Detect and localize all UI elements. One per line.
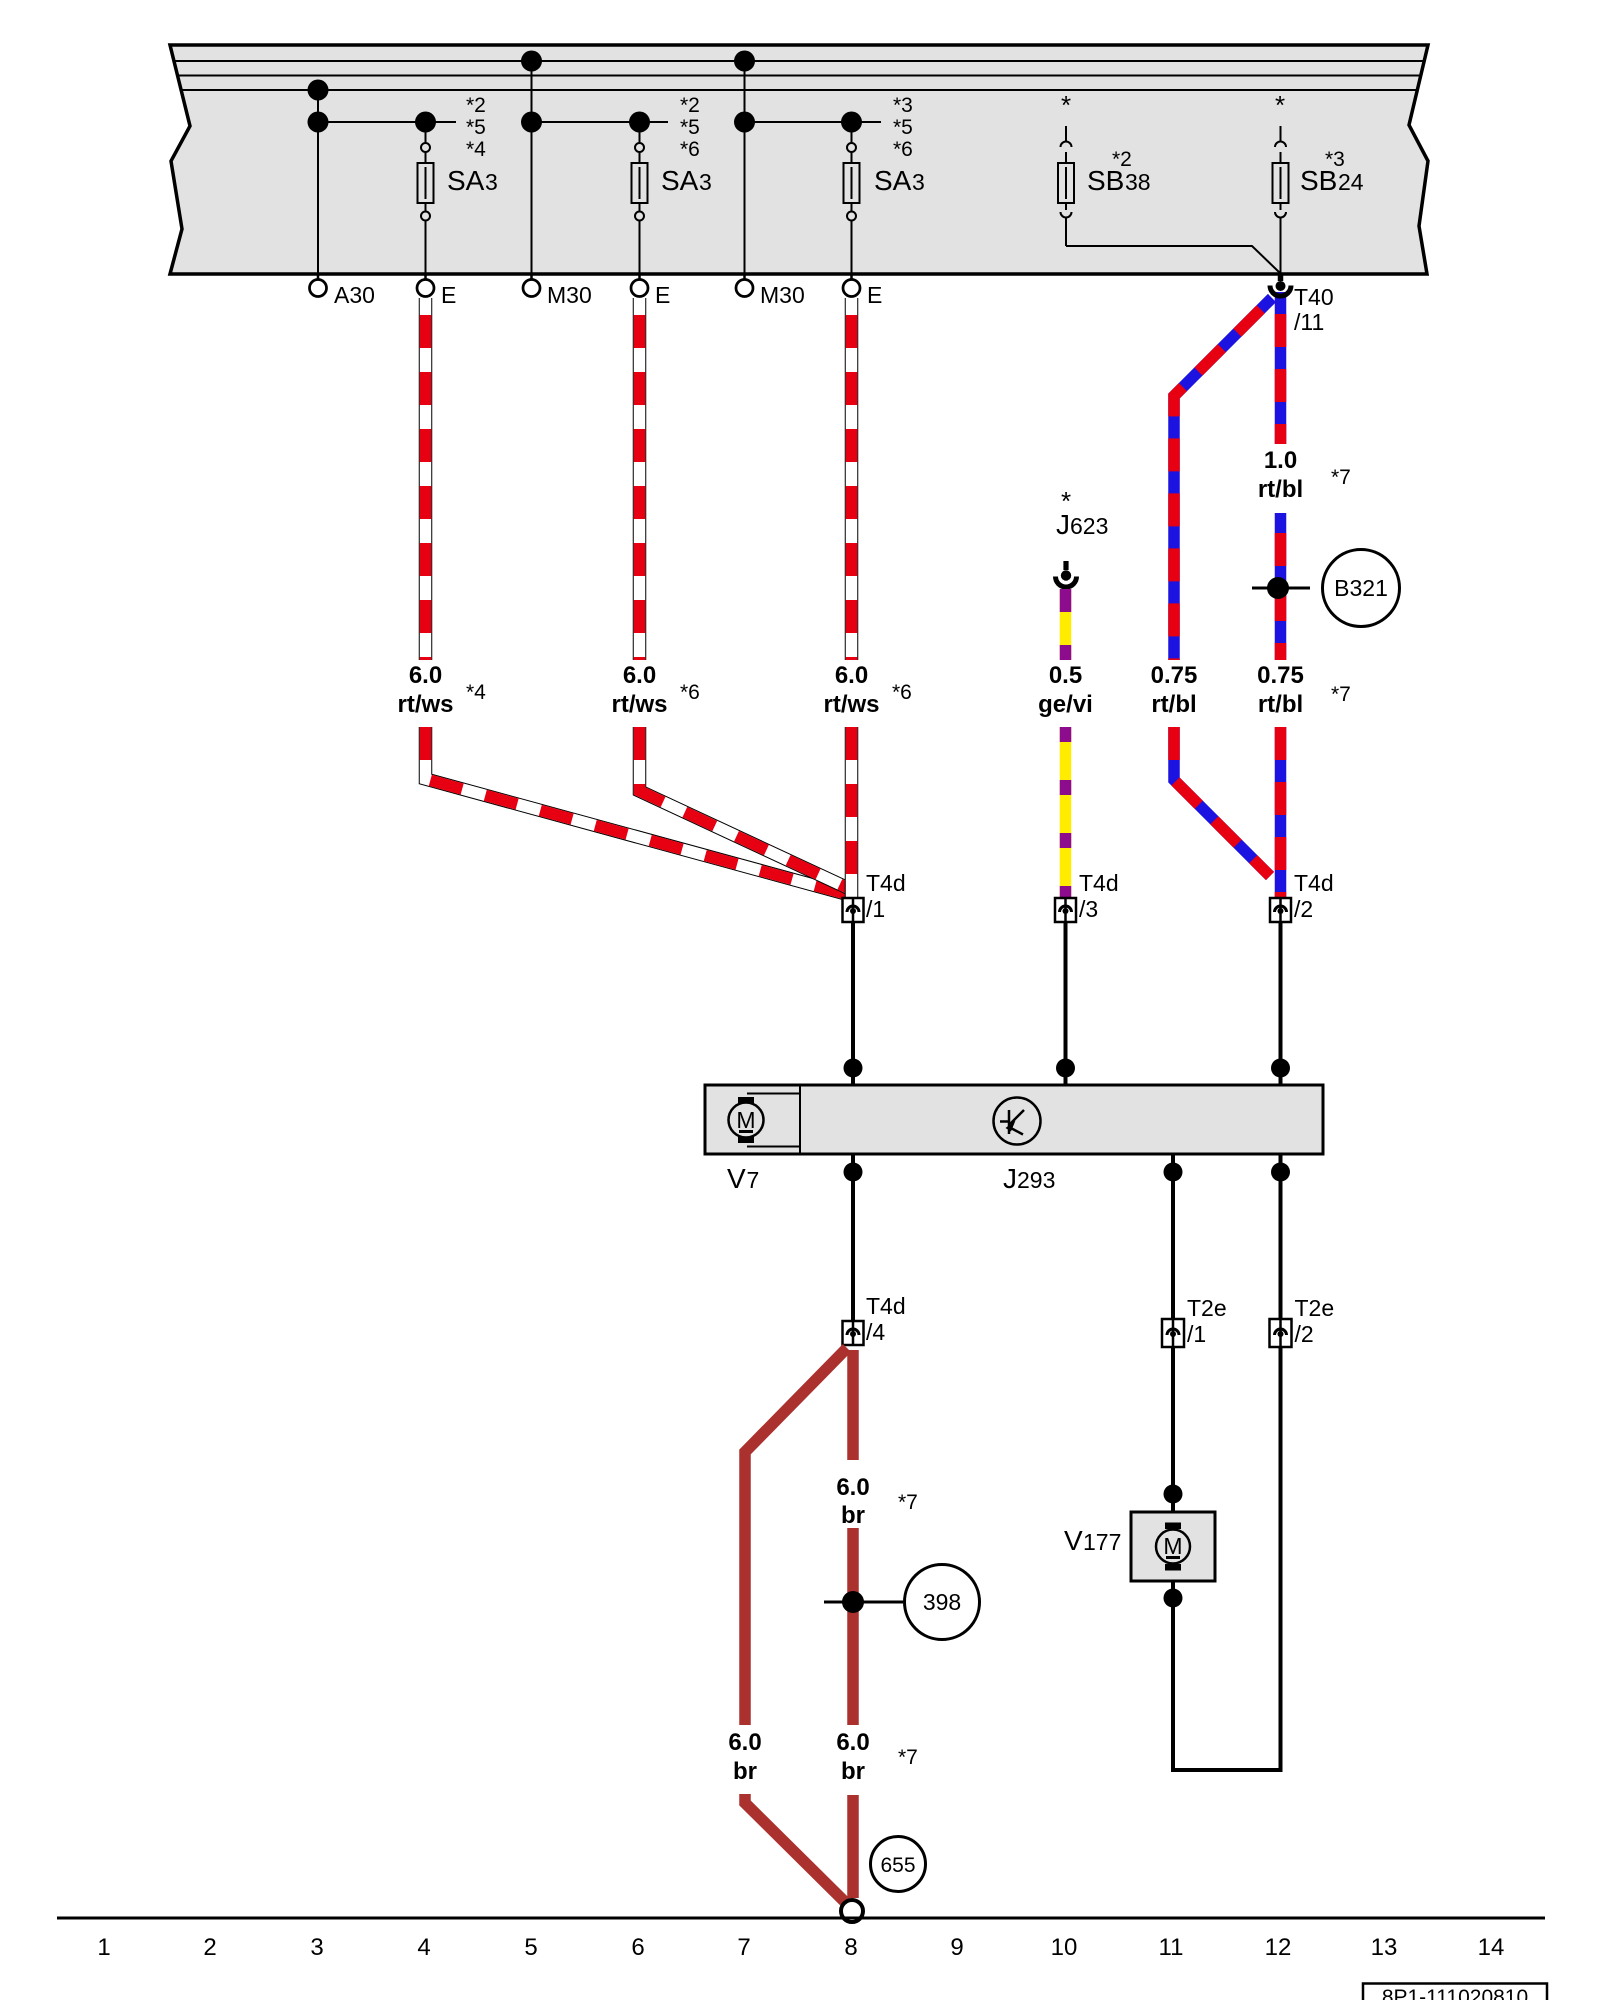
svg-text:SA: SA	[447, 165, 485, 196]
power supply bus band	[170, 45, 1428, 274]
svg-text:*5: *5	[893, 116, 913, 139]
wire M30 column 2	[734, 51, 755, 275]
J293 electronics symbol	[994, 1098, 1041, 1145]
svg-text:T2e: T2e	[1187, 1295, 1227, 1321]
svg-text:V: V	[727, 1163, 746, 1194]
label 1.0 rt/bl	[1258, 447, 1351, 503]
svg-text:1.0: 1.0	[1264, 447, 1297, 474]
node 655	[871, 1837, 926, 1892]
terminal E no.1	[417, 274, 456, 308]
grid numbers	[97, 1934, 1504, 1961]
svg-text:E: E	[441, 282, 456, 308]
svg-text:rt/bl: rt/bl	[1258, 476, 1303, 503]
svg-text:*7: *7	[1331, 466, 1351, 489]
svg-text:M30: M30	[547, 282, 592, 308]
wire V177 to T2e/2	[1164, 1347, 1281, 1772]
fuse SA3 no.2	[629, 112, 650, 275]
svg-text:T40: T40	[1294, 284, 1334, 310]
wire 6.0 rt/ws no.2 lower	[640, 727, 851, 889]
svg-text:br: br	[733, 1758, 757, 1785]
svg-text:6.0: 6.0	[836, 1474, 869, 1501]
terminal E no.2	[631, 274, 670, 308]
svg-text:*7: *7	[898, 1746, 918, 1769]
svg-text:0.5: 0.5	[1049, 662, 1082, 689]
svg-text:*2: *2	[680, 94, 700, 117]
svg-text:1: 1	[97, 1934, 110, 1961]
wire junction row 3	[745, 121, 882, 123]
svg-text:T2e: T2e	[1295, 1295, 1335, 1321]
wire junction row 2	[532, 121, 669, 123]
svg-text:SA: SA	[661, 165, 699, 196]
wire J293 to T4d/4	[844, 1154, 863, 1321]
svg-text:/1: /1	[1187, 1321, 1206, 1347]
svg-text:3: 3	[485, 169, 498, 195]
svg-text:/2: /2	[1294, 896, 1313, 922]
label 6.0 br row 2 center	[836, 1729, 918, 1785]
label SA3 no.3	[874, 94, 925, 196]
svg-text:T4d: T4d	[866, 1293, 906, 1319]
wire J293 to T2e/1	[1164, 1154, 1183, 1319]
svg-text:J: J	[1003, 1163, 1017, 1194]
terminal clamp T40/11	[1270, 273, 1334, 335]
svg-text:E: E	[655, 282, 670, 308]
svg-text:2: 2	[203, 1934, 216, 1961]
fuse SA3 no.3	[841, 112, 862, 275]
wire rt/bl vertical lower	[1275, 727, 1287, 897]
svg-text:3: 3	[699, 169, 712, 195]
svg-text:6.0: 6.0	[409, 662, 442, 689]
drawing number box	[1363, 1984, 1547, 2000]
svg-text:M: M	[1163, 1533, 1182, 1559]
label J293	[1003, 1163, 1055, 1194]
svg-text:M: M	[736, 1107, 755, 1133]
terminal A30	[310, 274, 375, 308]
svg-text:A30: A30	[334, 282, 375, 308]
connector T4d/1	[843, 870, 906, 922]
svg-text:11: 11	[1159, 1934, 1184, 1961]
svg-text:0.75: 0.75	[1257, 662, 1304, 689]
svg-text:*2: *2	[466, 94, 486, 117]
svg-text:*4: *4	[466, 681, 486, 704]
svg-text:7: 7	[747, 1167, 760, 1193]
svg-text:12: 12	[1265, 1934, 1292, 1961]
svg-text:6: 6	[631, 1934, 644, 1961]
svg-text:/3: /3	[1079, 896, 1098, 922]
ground symbol	[841, 1900, 863, 1922]
node 398	[824, 1565, 980, 1640]
svg-text:rt/ws: rt/ws	[397, 691, 453, 718]
svg-text:10: 10	[1051, 1934, 1078, 1961]
svg-text:*3: *3	[893, 94, 913, 117]
svg-text:6.0: 6.0	[623, 662, 656, 689]
wire 0.75 rt/bl lower left	[1174, 727, 1270, 876]
fuse SB24	[1273, 90, 1289, 273]
label 0.75 rt/bl left	[1151, 662, 1198, 718]
svg-text:rt/bl: rt/bl	[1151, 691, 1196, 718]
grid baseline	[57, 1917, 1545, 1920]
svg-text:6.0: 6.0	[836, 1729, 869, 1756]
svg-text:/11: /11	[1294, 309, 1324, 335]
svg-text:br: br	[841, 1758, 865, 1785]
svg-text:rt/bl: rt/bl	[1258, 691, 1303, 718]
wire 1.0 rt/bl vertical upper	[1275, 292, 1287, 444]
svg-text:398: 398	[923, 1589, 961, 1615]
label 6.0 br row 1	[836, 1474, 918, 1529]
svg-text:6.0: 6.0	[728, 1729, 761, 1756]
label wire1 6.0 rt/ws	[397, 662, 486, 718]
svg-text:8: 8	[844, 1934, 857, 1961]
bus line 30a	[175, 60, 1424, 62]
label SA3 no.1	[447, 94, 498, 196]
svg-text:SA: SA	[874, 165, 912, 196]
svg-text:177: 177	[1083, 1529, 1121, 1555]
wire 6.0 br center segment 1	[847, 1350, 859, 1460]
wire 6.0 rt/ws no.1 upper	[419, 298, 433, 660]
svg-text:7: 7	[737, 1934, 750, 1961]
svg-text:B321: B321	[1334, 575, 1388, 601]
svg-text:9: 9	[950, 1934, 963, 1961]
svg-text:*2: *2	[1112, 148, 1132, 171]
wire T4d/2 to J293	[1271, 922, 1290, 1085]
wire 6.0 br center segment 3	[847, 1795, 859, 1898]
terminal E no.3	[843, 274, 882, 308]
svg-text:T4d: T4d	[1079, 870, 1119, 896]
motor V177	[1131, 1512, 1215, 1581]
svg-text:rt/ws: rt/ws	[823, 691, 879, 718]
svg-text:655: 655	[880, 1854, 915, 1877]
svg-text:*5: *5	[466, 116, 486, 139]
svg-text:*7: *7	[898, 1491, 918, 1514]
svg-text:5: 5	[524, 1934, 537, 1961]
svg-text:*: *	[1061, 90, 1071, 120]
bus line 30b	[178, 75, 1421, 77]
svg-text:V: V	[1064, 1525, 1083, 1556]
connector T4d/3	[1055, 870, 1119, 922]
fuse SA3 no.1	[415, 112, 436, 275]
svg-text:4: 4	[417, 1934, 430, 1961]
svg-text:*6: *6	[680, 138, 700, 161]
svg-text:*3: *3	[1325, 148, 1345, 171]
wire junction row 1	[318, 121, 456, 123]
connector T4d/4	[843, 1293, 906, 1345]
wire M30 column 1	[521, 51, 542, 275]
svg-text:E: E	[867, 282, 882, 308]
svg-text:br: br	[841, 1502, 865, 1529]
svg-text:3: 3	[310, 1934, 323, 1961]
svg-text:*6: *6	[892, 681, 912, 704]
wire T4d/1 to J293	[844, 922, 863, 1085]
svg-text:*6: *6	[893, 138, 913, 161]
connector T4d/2	[1270, 870, 1334, 922]
label 0.5 ge/vi	[1038, 662, 1093, 718]
motor V7 symbol	[729, 1097, 764, 1143]
svg-text:*5: *5	[680, 116, 700, 139]
svg-text:293: 293	[1017, 1167, 1055, 1193]
wire rt/bl vertical middle	[1275, 513, 1287, 660]
wire 6.0 br center segment 2	[847, 1528, 859, 1725]
svg-text:24: 24	[1338, 169, 1364, 195]
svg-text:M30: M30	[760, 282, 805, 308]
wire 0.5 ge/vi upper	[1060, 589, 1072, 660]
wire 6.0 rt/ws no.3 upper	[845, 298, 859, 660]
wire T4d/3 to J293	[1056, 922, 1075, 1085]
svg-text:*7: *7	[1331, 683, 1351, 706]
label wire2 6.0 rt/ws	[611, 662, 699, 718]
fuse SB38	[1058, 90, 1280, 273]
svg-text:*: *	[1275, 90, 1285, 120]
svg-text:8P1-111020810: 8P1-111020810	[1382, 1986, 1528, 2000]
svg-text:0.75: 0.75	[1151, 662, 1198, 689]
svg-text:/4: /4	[866, 1319, 885, 1345]
node B321	[1252, 550, 1400, 627]
connector T2e/1	[1162, 1295, 1227, 1347]
wire A30 column	[308, 80, 329, 275]
svg-text:rt/ws: rt/ws	[611, 691, 667, 718]
svg-text:13: 13	[1371, 1934, 1398, 1961]
label 6.0 br row 2 left	[728, 1729, 761, 1785]
svg-text:T4d: T4d	[1294, 870, 1334, 896]
wire J293 to T2e/2	[1271, 1154, 1290, 1319]
svg-text:*4: *4	[466, 138, 486, 161]
label 0.75 rt/bl right	[1257, 662, 1351, 718]
wire 6.0 br left upper	[745, 1348, 847, 1725]
wire T2e/1 to V177	[1164, 1347, 1183, 1512]
label V7	[727, 1163, 759, 1194]
svg-text:623: 623	[1070, 513, 1108, 539]
svg-text:J: J	[1056, 509, 1070, 540]
connector T2e/2	[1270, 1295, 1335, 1347]
svg-text:38: 38	[1125, 169, 1151, 195]
svg-text:3: 3	[912, 169, 925, 195]
wire 6.0 br left lower	[745, 1794, 850, 1907]
label SB24	[1300, 148, 1364, 196]
wire 6.0 rt/ws no.3 lower	[845, 727, 859, 897]
label SA3 no.2	[661, 94, 712, 196]
bus line 30c	[181, 89, 1417, 91]
terminal M30 no.2	[736, 274, 805, 308]
label SB38	[1087, 148, 1151, 196]
wire 0.75 rt/bl diagonal upper	[1174, 298, 1272, 660]
connector J623	[1056, 486, 1109, 587]
wire 0.5 ge/vi lower	[1060, 727, 1072, 897]
svg-text:*6: *6	[680, 681, 700, 704]
control unit J293 box	[705, 1085, 1323, 1154]
svg-text:ge/vi: ge/vi	[1038, 691, 1093, 718]
terminal M30 no.1	[523, 274, 592, 308]
wire 6.0 rt/ws no.2 upper	[633, 298, 647, 660]
label V177	[1064, 1525, 1121, 1556]
wire 6.0 rt/ws no.1 lower	[426, 727, 847, 894]
label wire3 6.0 rt/ws	[823, 662, 911, 718]
svg-text:6.0: 6.0	[835, 662, 868, 689]
svg-text:/1: /1	[866, 896, 885, 922]
svg-text:14: 14	[1478, 1934, 1505, 1961]
svg-text:/2: /2	[1295, 1321, 1314, 1347]
svg-text:T4d: T4d	[866, 870, 906, 896]
